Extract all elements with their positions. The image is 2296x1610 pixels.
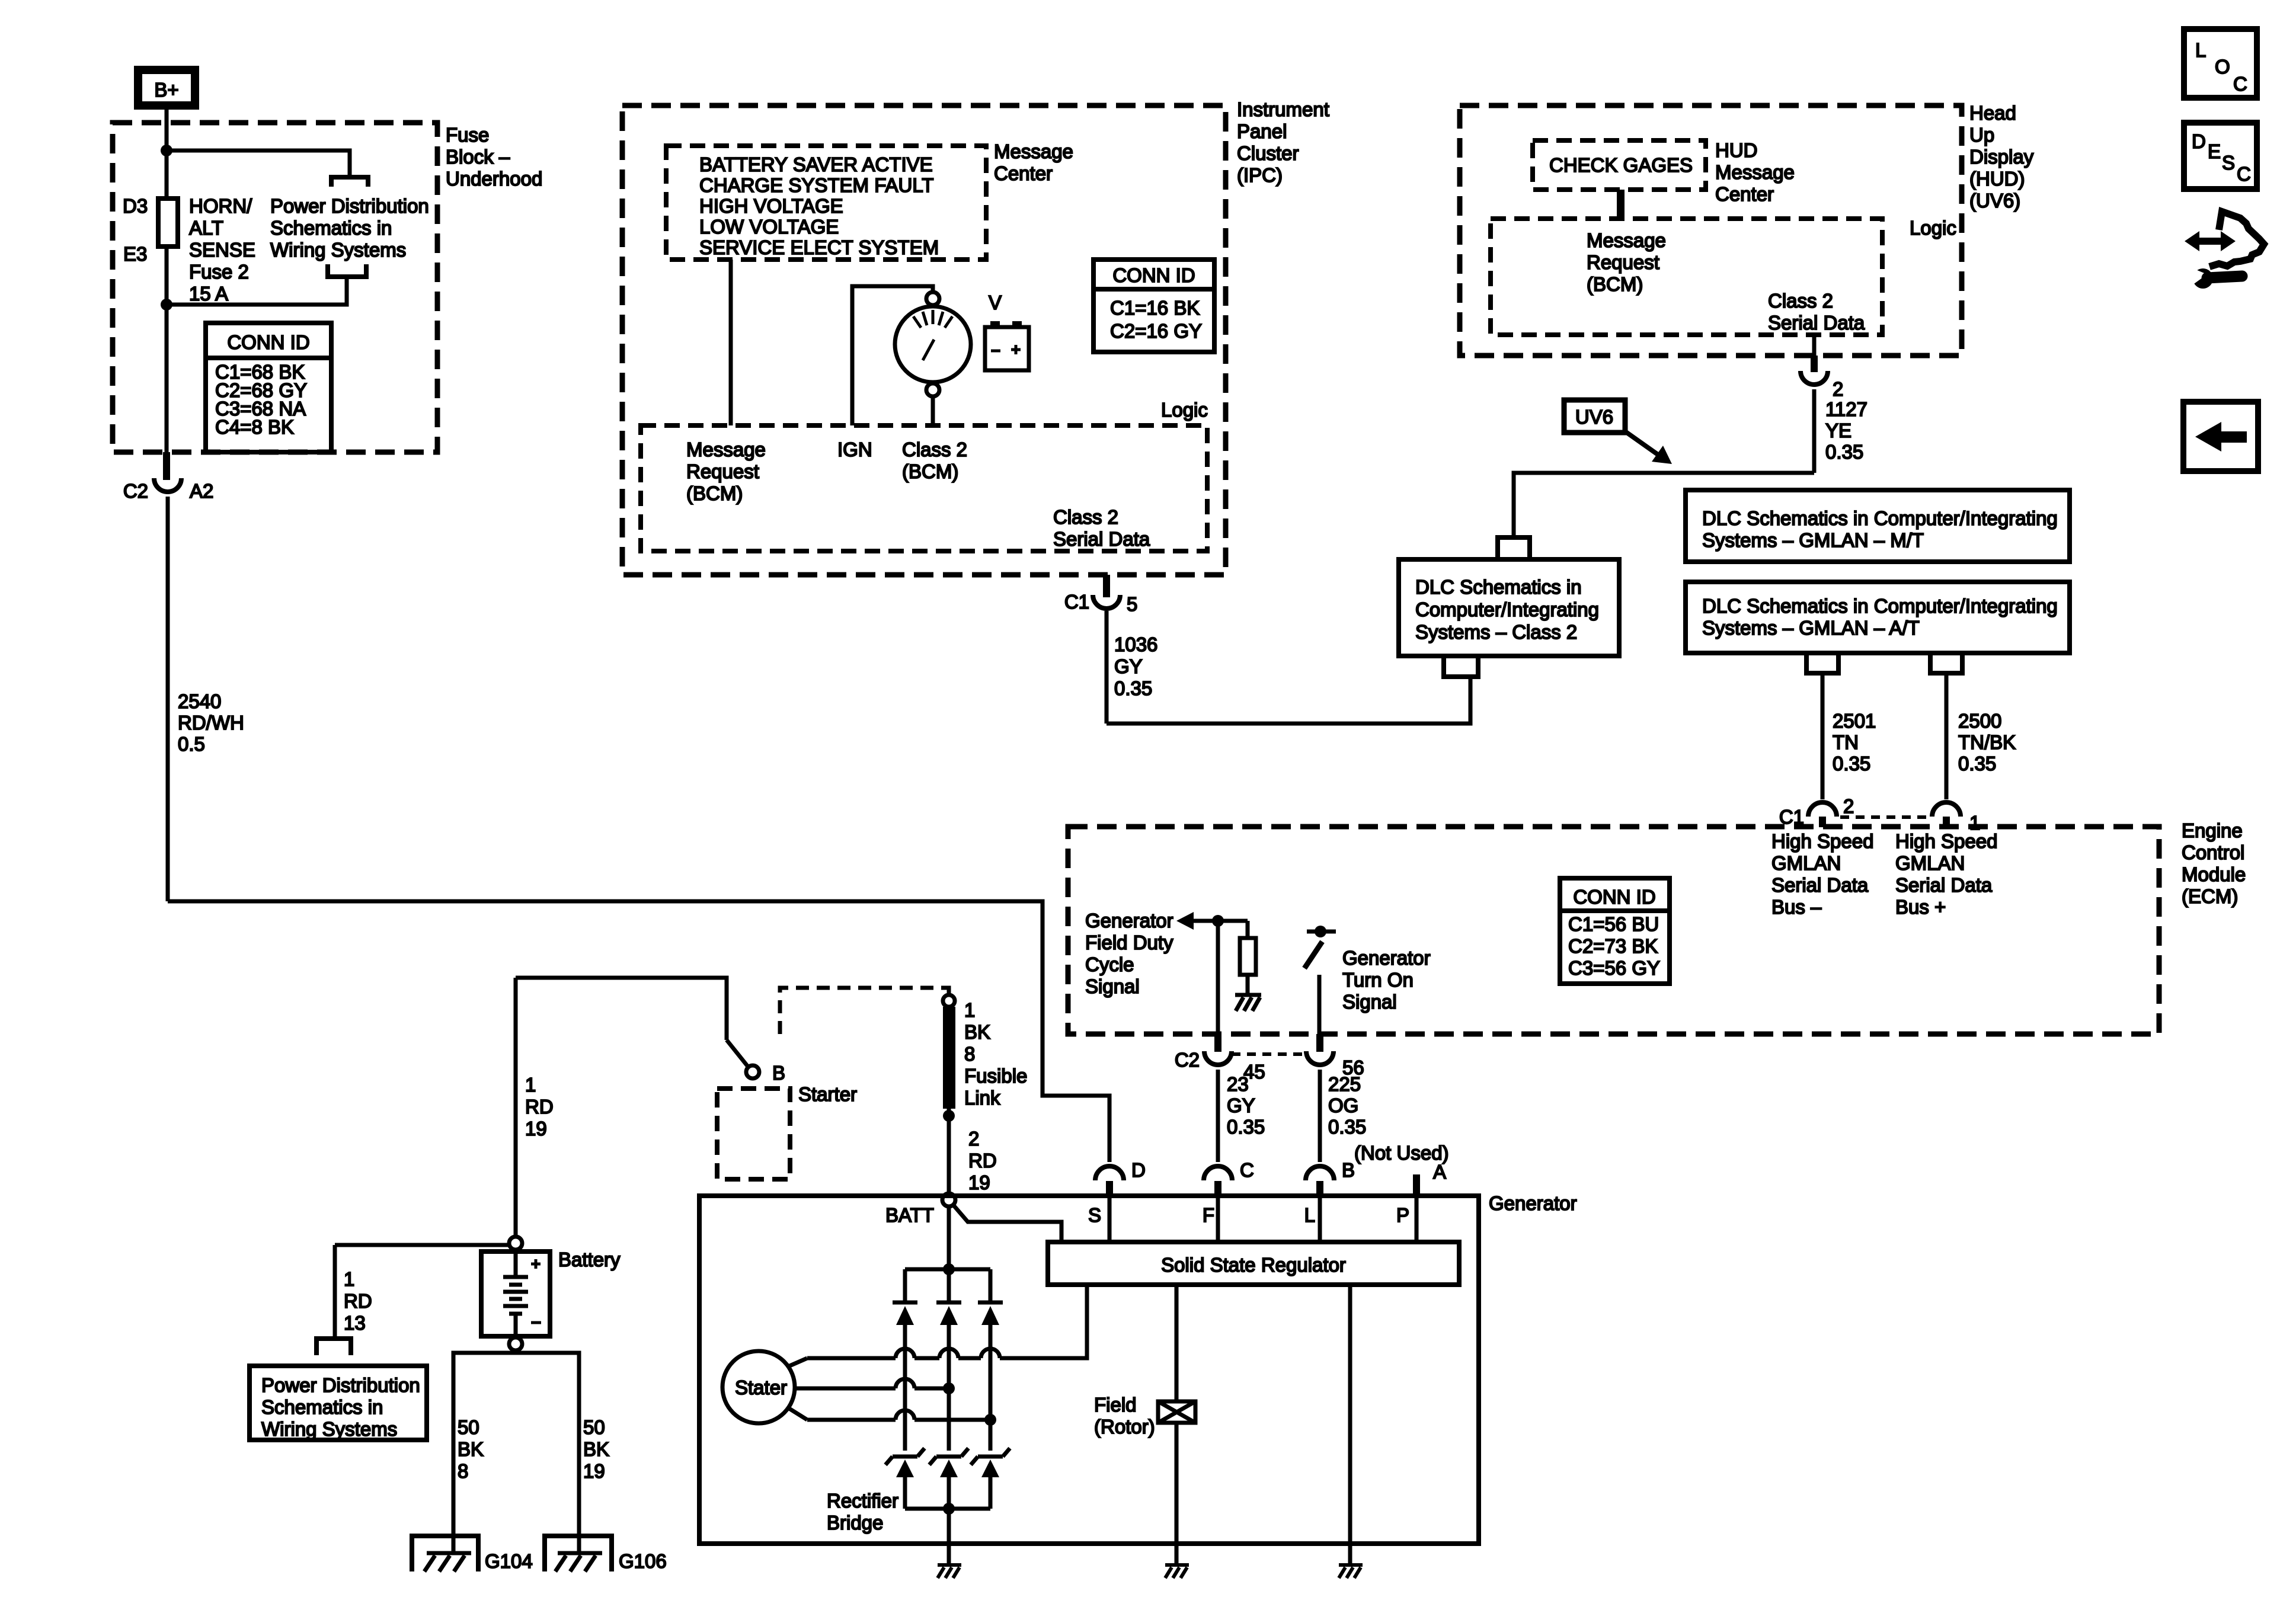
svg-text:Generator: Generator: [1342, 947, 1431, 969]
svg-text:19: 19: [968, 1172, 990, 1193]
svg-text:LOW VOLTAGE: LOW VOLTAGE: [699, 216, 839, 238]
svg-text:SERVICE ELECT SYSTEM: SERVICE ELECT SYSTEM: [699, 236, 939, 258]
svg-text:S: S: [2222, 152, 2235, 174]
svg-text:(BCM): (BCM): [1587, 273, 1643, 295]
svg-text:Turn On: Turn On: [1342, 969, 1414, 991]
svg-text:Rectifier: Rectifier: [827, 1490, 898, 1512]
svg-text:50: 50: [458, 1416, 479, 1438]
svg-text:Message: Message: [1587, 229, 1666, 251]
svg-text:P: P: [1396, 1204, 1409, 1226]
svg-text:B: B: [772, 1062, 785, 1084]
svg-text:Center: Center: [1715, 183, 1774, 205]
svg-text:HORN/: HORN/: [189, 195, 252, 217]
svg-text:Center: Center: [994, 162, 1053, 184]
svg-text:C: C: [2237, 163, 2251, 185]
svg-text:Bus +: Bus +: [1895, 896, 1946, 918]
svg-text:HUD: HUD: [1715, 139, 1758, 161]
svg-text:Bridge: Bridge: [827, 1512, 883, 1534]
svg-text:(ECM): (ECM): [2182, 885, 2238, 907]
svg-text:Power Distribution: Power Distribution: [261, 1374, 420, 1396]
svg-text:Control: Control: [2182, 841, 2244, 863]
svg-text:OG: OG: [1328, 1094, 1358, 1116]
svg-text:IGN: IGN: [837, 438, 872, 460]
svg-text:2501: 2501: [1833, 710, 1876, 732]
svg-text:Instrument: Instrument: [1237, 98, 1329, 120]
svg-text:TN: TN: [1833, 731, 1859, 753]
svg-text:DLC Schematics in Computer/Int: DLC Schematics in Computer/Integrating: [1702, 595, 2058, 617]
svg-text:Serial Data: Serial Data: [1053, 528, 1150, 550]
svg-text:225: 225: [1328, 1073, 1361, 1095]
svg-text:C2: C2: [123, 480, 148, 502]
svg-text:Message: Message: [994, 140, 1073, 162]
svg-text:Systems – GMLAN – A/T: Systems – GMLAN – A/T: [1702, 617, 1920, 639]
svg-text:Stater: Stater: [735, 1377, 787, 1398]
svg-text:Field Duty: Field Duty: [1085, 932, 1173, 953]
svg-text:(UV6): (UV6): [1969, 190, 2020, 212]
svg-text:Panel: Panel: [1237, 120, 1287, 142]
svg-text:E: E: [2208, 140, 2221, 162]
svg-text:Display: Display: [1969, 146, 2034, 168]
svg-text:19: 19: [583, 1460, 605, 1482]
svg-text:1: 1: [964, 999, 975, 1021]
svg-text:Head: Head: [1969, 102, 2016, 124]
svg-text:2: 2: [968, 1128, 979, 1150]
svg-text:1127: 1127: [1825, 398, 1868, 420]
svg-text:GMLAN: GMLAN: [1771, 852, 1841, 874]
svg-text:ALT: ALT: [189, 217, 223, 239]
svg-text:50: 50: [583, 1416, 605, 1438]
svg-text:0.35: 0.35: [1227, 1116, 1265, 1138]
svg-text:CONN ID: CONN ID: [227, 331, 309, 353]
svg-text:Message: Message: [1715, 161, 1795, 183]
svg-text:G106: G106: [619, 1550, 667, 1572]
svg-text:Underhood: Underhood: [446, 168, 542, 190]
svg-text:O: O: [2215, 56, 2230, 78]
svg-text:2: 2: [1843, 795, 1854, 817]
svg-text:0.5: 0.5: [178, 733, 205, 755]
svg-text:5: 5: [1127, 593, 1137, 615]
svg-text:Generator: Generator: [1085, 910, 1173, 932]
svg-text:GY: GY: [1227, 1094, 1255, 1116]
svg-text:C2=16 GY: C2=16 GY: [1110, 320, 1202, 342]
svg-text:A: A: [1433, 1161, 1446, 1183]
svg-text:L: L: [2195, 39, 2206, 61]
svg-text:(BCM): (BCM): [902, 460, 958, 482]
svg-text:UV6: UV6: [1575, 406, 1613, 428]
svg-text:CONN ID: CONN ID: [1112, 264, 1195, 286]
svg-text:(HUD): (HUD): [1969, 168, 2025, 190]
svg-text:Starter: Starter: [798, 1083, 857, 1105]
svg-text:DLC Schematics in Computer/Int: DLC Schematics in Computer/Integrating: [1702, 507, 2058, 529]
svg-text:B+: B+: [154, 79, 178, 101]
svg-text:1: 1: [525, 1074, 536, 1096]
svg-text:GY: GY: [1114, 655, 1143, 677]
svg-text:Battery: Battery: [558, 1249, 621, 1270]
svg-text:Module: Module: [2182, 863, 2246, 885]
svg-text:Logic: Logic: [1161, 399, 1208, 421]
svg-text:Class 2: Class 2: [1768, 290, 1833, 312]
svg-text:F: F: [1203, 1204, 1214, 1226]
svg-text:C2=73 BK: C2=73 BK: [1568, 935, 1658, 957]
svg-text:D: D: [2192, 130, 2206, 152]
svg-text:BK: BK: [458, 1438, 484, 1460]
svg-text:19: 19: [525, 1118, 547, 1140]
svg-text:Cycle: Cycle: [1085, 953, 1134, 975]
svg-text:RD: RD: [968, 1150, 997, 1172]
svg-text:D3: D3: [123, 195, 148, 217]
svg-text:Computer/Integrating: Computer/Integrating: [1415, 598, 1599, 620]
svg-text:Class 2: Class 2: [902, 438, 967, 460]
svg-text:Request: Request: [1587, 251, 1659, 273]
svg-text:Power Distribution: Power Distribution: [270, 195, 429, 217]
svg-text:Wiring Systems: Wiring Systems: [270, 239, 406, 261]
svg-text:8: 8: [458, 1460, 468, 1482]
svg-text:RD: RD: [525, 1096, 554, 1118]
svg-text:High Speed: High Speed: [1771, 830, 1873, 852]
svg-text:YE: YE: [1825, 420, 1851, 441]
svg-text:DLC Schematics in: DLC Schematics in: [1415, 576, 1582, 598]
svg-text:RD: RD: [344, 1290, 372, 1312]
svg-text:TN/BK: TN/BK: [1958, 731, 2016, 753]
svg-text:Serial Data: Serial Data: [1771, 874, 1869, 896]
svg-text:High Speed: High Speed: [1895, 830, 1997, 852]
svg-text:Bus –: Bus –: [1771, 896, 1822, 918]
svg-text:Fusible: Fusible: [964, 1065, 1027, 1087]
svg-text:0.35: 0.35: [1833, 753, 1870, 774]
svg-text:Fuse 2: Fuse 2: [189, 261, 249, 283]
svg-text:Up: Up: [1969, 124, 1994, 146]
svg-text:23: 23: [1227, 1073, 1249, 1095]
svg-text:CHECK GAGES: CHECK GAGES: [1549, 154, 1693, 176]
svg-text:0.35: 0.35: [1958, 753, 1996, 774]
svg-text:1: 1: [344, 1268, 354, 1290]
svg-text:BATT: BATT: [885, 1204, 934, 1226]
svg-text:SENSE: SENSE: [189, 239, 255, 261]
svg-text:GMLAN: GMLAN: [1895, 852, 1965, 874]
svg-text:BK: BK: [583, 1438, 609, 1460]
svg-text:Logic: Logic: [1910, 217, 1956, 239]
svg-text:(Rotor): (Rotor): [1094, 1416, 1155, 1438]
svg-text:V: V: [989, 292, 1002, 313]
svg-text:0.35: 0.35: [1114, 677, 1152, 699]
svg-text:S: S: [1088, 1204, 1101, 1226]
svg-text:HIGH VOLTAGE: HIGH VOLTAGE: [699, 195, 843, 217]
svg-text:Link: Link: [964, 1087, 1000, 1109]
svg-text:D: D: [1131, 1159, 1146, 1181]
svg-text:C4=8 BK: C4=8 BK: [215, 416, 294, 438]
svg-text:CONN ID: CONN ID: [1573, 886, 1655, 908]
svg-text:0.35: 0.35: [1328, 1116, 1366, 1138]
svg-text:8: 8: [964, 1043, 975, 1065]
svg-text:0.35: 0.35: [1825, 441, 1863, 463]
svg-text:2500: 2500: [1958, 710, 2001, 732]
svg-text:Request: Request: [686, 460, 759, 482]
svg-text:15 A: 15 A: [189, 283, 228, 305]
svg-text:Signal: Signal: [1342, 991, 1397, 1013]
svg-text:Engine: Engine: [2182, 820, 2243, 841]
svg-text:BK: BK: [964, 1021, 990, 1043]
svg-text:C1=16 BK: C1=16 BK: [1110, 297, 1200, 319]
svg-text:Serial Data: Serial Data: [1895, 874, 1993, 896]
svg-text:C3=56 GY: C3=56 GY: [1568, 957, 1660, 979]
svg-text:Field: Field: [1094, 1394, 1137, 1416]
svg-text:1036: 1036: [1114, 633, 1157, 655]
svg-text:BATTERY SAVER ACTIVE: BATTERY SAVER ACTIVE: [699, 153, 933, 175]
svg-text:Wiring Systems: Wiring Systems: [261, 1418, 397, 1440]
svg-text:Solid State Regulator: Solid State Regulator: [1161, 1254, 1346, 1276]
svg-text:2540: 2540: [178, 690, 221, 712]
svg-text:(BCM): (BCM): [686, 482, 743, 504]
svg-text:Class 2: Class 2: [1053, 506, 1118, 528]
svg-text:Cluster: Cluster: [1237, 142, 1299, 164]
svg-text:(IPC): (IPC): [1237, 164, 1283, 186]
svg-text:Systems – Class 2: Systems – Class 2: [1415, 621, 1577, 643]
svg-text:C1: C1: [1064, 591, 1089, 613]
svg-text:A2: A2: [190, 480, 213, 502]
svg-text:C1=56 BU: C1=56 BU: [1568, 913, 1659, 935]
svg-text:Serial Data: Serial Data: [1768, 312, 1865, 334]
svg-text:C: C: [1240, 1159, 1254, 1181]
svg-text:2: 2: [1833, 378, 1843, 400]
svg-text:Fuse: Fuse: [446, 124, 489, 146]
svg-text:C2: C2: [1175, 1049, 1200, 1071]
svg-text:13: 13: [344, 1312, 366, 1334]
svg-text:Schematics in: Schematics in: [261, 1396, 383, 1418]
svg-text:B: B: [1342, 1159, 1355, 1181]
svg-text:Generator: Generator: [1489, 1192, 1577, 1214]
svg-text:Block –: Block –: [446, 146, 510, 168]
svg-text:RD/WH: RD/WH: [178, 712, 244, 734]
svg-text:Message: Message: [686, 438, 766, 460]
svg-text:L: L: [1304, 1204, 1315, 1226]
svg-text:CHARGE SYSTEM FAULT: CHARGE SYSTEM FAULT: [699, 174, 933, 196]
svg-text:G104: G104: [485, 1550, 533, 1572]
svg-text:C: C: [2233, 73, 2247, 95]
svg-text:Signal: Signal: [1085, 975, 1140, 997]
svg-text:Schematics in: Schematics in: [270, 217, 392, 239]
svg-text:E3: E3: [123, 243, 147, 265]
svg-text:Systems – GMLAN – M/T: Systems – GMLAN – M/T: [1702, 529, 1924, 551]
